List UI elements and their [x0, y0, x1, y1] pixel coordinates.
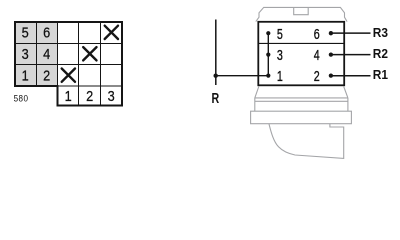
pin 6 dot	[329, 31, 333, 35]
neck band line B	[255, 100, 348, 102]
svg-text:4: 4	[43, 45, 50, 62]
pin 3 dot	[266, 53, 270, 57]
svg-text:580: 580	[14, 93, 29, 104]
X mark row3 col3	[62, 69, 75, 82]
cover latch notch	[294, 7, 309, 14]
connector housing top cover (gray)	[256, 7, 347, 21]
svg-text:2: 2	[86, 87, 93, 104]
svg-text:1: 1	[65, 87, 72, 104]
svg-text:4: 4	[314, 47, 320, 63]
grid inner lines	[15, 22, 122, 106]
junction dot on R wire	[214, 74, 218, 78]
pin 1 dot	[266, 74, 270, 78]
neck band line A	[255, 97, 348, 99]
relay housing below box (gray)	[251, 87, 352, 159]
svg-text:3: 3	[22, 45, 29, 62]
neck right side	[347, 98, 349, 111]
X mark row1 col5	[105, 26, 118, 39]
svg-text:5: 5	[277, 26, 283, 42]
box divider 1	[258, 42, 344, 44]
svg-text:2: 2	[43, 66, 50, 83]
neck right slant	[344, 87, 348, 98]
pin 2 dot	[329, 73, 333, 77]
svg-text:6: 6	[43, 23, 50, 40]
X mark row2 col4	[83, 47, 96, 60]
svg-text:6: 6	[314, 26, 320, 42]
svg-text:3: 3	[277, 47, 283, 63]
wire pin2 to R1	[331, 75, 371, 77]
mounting flange	[251, 111, 352, 124]
neck left slant	[255, 87, 259, 98]
svg-text:R1: R1	[373, 68, 388, 82]
svg-text:1: 1	[22, 66, 29, 83]
pin 4 dot	[329, 52, 333, 56]
wire from R to pin 1	[216, 75, 269, 77]
wire pin4 to R2	[331, 54, 371, 56]
grid pin numbers column 1/2	[22, 23, 115, 104]
vertical inner lines	[36, 22, 38, 86]
svg-text:1: 1	[277, 69, 283, 85]
svg-text:R2: R2	[373, 47, 388, 61]
wire R vertical	[215, 20, 217, 86]
svg-text:5: 5	[22, 23, 29, 40]
pin 5 dot	[266, 31, 270, 35]
svg-text:R: R	[212, 89, 220, 106]
neck left side	[254, 98, 256, 111]
svg-text:R3: R3	[373, 26, 388, 40]
internal bus wire linking pins 5-3-1	[267, 33, 269, 76]
wire pin6 to R3	[331, 32, 371, 34]
svg-text:2: 2	[314, 69, 320, 85]
horizontal inner lines	[15, 42, 122, 44]
connector pin box	[258, 22, 344, 86]
gray pin-number cells fill	[15, 22, 58, 86]
svg-text:3: 3	[108, 87, 115, 104]
body outline with curved base	[269, 124, 344, 159]
pin numbers inside box	[277, 26, 320, 84]
grid outer border (L-shape)	[15, 22, 122, 106]
